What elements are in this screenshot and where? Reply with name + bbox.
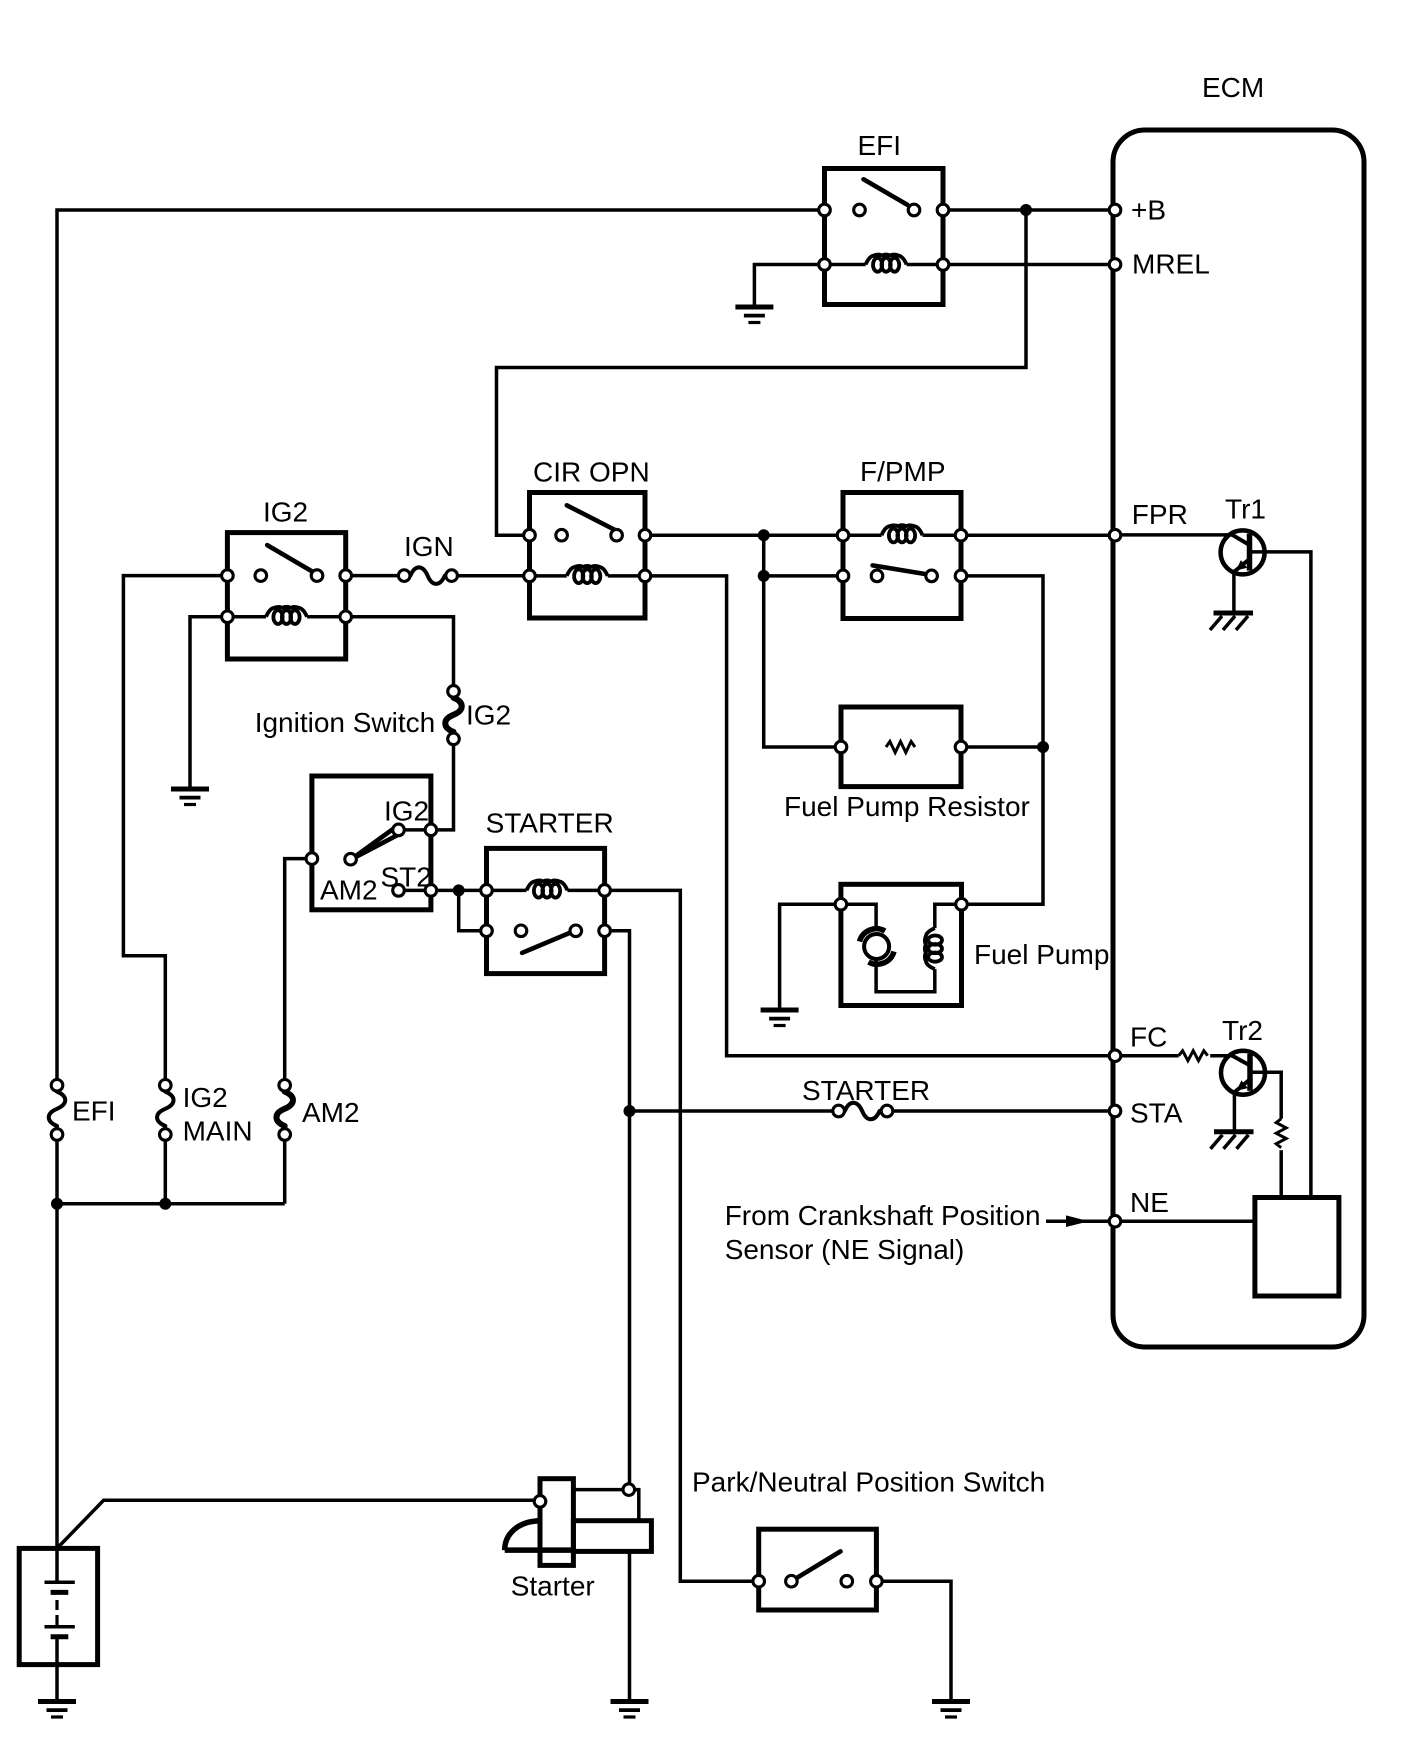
svg-text:FC: FC (1130, 1022, 1167, 1053)
relay CIR OPN coil (530, 566, 646, 583)
relay F/PMP switch lever (873, 565, 928, 574)
pin STARTER relay switch left (481, 925, 493, 937)
NE block inside ECM (1255, 1198, 1339, 1297)
pin IG2 relay switch right (340, 570, 352, 582)
ignition switch ST2 contact to pin wire (399, 889, 431, 893)
wire junction down to fuel pump resistor input (764, 535, 841, 747)
Tr2 chassis ground (1211, 1132, 1254, 1149)
FC input resistor (1179, 1051, 1208, 1061)
wire battery to EFI relay switch via left rail (57, 210, 825, 1085)
pin EFI fuse bottom (51, 1129, 63, 1141)
battery box (19, 1548, 97, 1664)
pin STARTER relay coil right (599, 885, 611, 897)
pin IG2 MAIN fuse top (160, 1080, 172, 1092)
pin CIR OPN switch right (639, 529, 651, 541)
svg-text:IG2: IG2 (183, 1082, 228, 1113)
contact EFI switch moving (908, 204, 920, 216)
pin EFI relay coil right (937, 259, 949, 271)
svg-text:Tr1: Tr1 (1225, 494, 1266, 525)
Tr1 collector wire to NE block (1250, 552, 1311, 1198)
Tr2 collector resistor vertical (1276, 1119, 1286, 1148)
pin IG2 relay coil left (222, 611, 234, 623)
battery plate long 2 (45, 1625, 75, 1629)
svg-text:STARTER: STARTER (802, 1075, 930, 1106)
svg-text:+B: +B (1131, 195, 1166, 226)
contact park/neutral switch fixed (786, 1575, 798, 1587)
svg-text:Tr2: Tr2 (1222, 1015, 1263, 1046)
svg-text:Park/Neutral Position Switch: Park/Neutral Position Switch (692, 1467, 1045, 1498)
pin F/PMP switch right (955, 570, 967, 582)
wire ignition switch AM2 terminal to AM2 fuse (285, 859, 312, 1086)
svg-text:IG2: IG2 (384, 796, 429, 827)
relay STARTER box (487, 848, 605, 973)
wire STA junction to STARTER fuse (630, 1109, 839, 1113)
junction +B node (1020, 204, 1032, 216)
pin IG2 MAIN fuse bottom (160, 1129, 172, 1141)
relay CIR OPN box (530, 493, 646, 619)
pin park/neutral switch left (753, 1575, 765, 1587)
pin EFI fuse top (51, 1080, 63, 1092)
transistor Tr1 (1221, 530, 1265, 574)
junction ST2 node (453, 884, 465, 896)
wire fuse bus rail (57, 1202, 285, 1206)
svg-text:AM2: AM2 (320, 875, 378, 906)
pin starter solenoid control terminal (623, 1484, 635, 1496)
ground at starter (611, 1702, 649, 1718)
fuel pump resistor zigzag R (886, 742, 915, 753)
fuel pump motor rotation arrows (860, 929, 886, 942)
wire ignition switch ST2 to STARTER relay coil (431, 889, 487, 893)
pin ECM MREL (1109, 259, 1121, 271)
wire IG2 relay switch output to IGN fuse (346, 574, 405, 578)
junction bus IG2 MAIN (159, 1198, 171, 1210)
pin EFI relay switch right (937, 204, 949, 216)
Tr1 emitter wire (1232, 571, 1236, 612)
ground at EFI relay coil (735, 307, 773, 323)
pin EFI relay coil left (819, 259, 831, 271)
contact park/neutral switch moving (841, 1575, 853, 1587)
ECM (1113, 130, 1364, 1347)
contact STARTER switch moving (570, 925, 582, 937)
wire IG2 fuse to ignition switch IG2 terminal (431, 739, 454, 830)
relay IG2 box (227, 533, 345, 659)
pin IGN fuse left (398, 570, 410, 582)
contact STARTER switch fixed (515, 925, 527, 937)
wire IG2 relay coil to ground (190, 617, 227, 787)
Tr1 chassis ground (1210, 613, 1253, 630)
svg-text:From Crankshaft Position: From Crankshaft Position (725, 1200, 1041, 1231)
pin ignition switch ST2 (425, 885, 437, 897)
svg-text:IG2: IG2 (263, 497, 308, 528)
pin ECM STA (1109, 1105, 1121, 1117)
relay F/PMP coil (843, 525, 961, 542)
starter motor body (573, 1521, 651, 1552)
pin fuel pump resistor right (955, 741, 967, 753)
wire fuel pump to ground (780, 904, 841, 1008)
starter solenoid (540, 1479, 573, 1566)
svg-text:IGN: IGN (404, 531, 454, 562)
pin starter solenoid battery terminal (534, 1496, 546, 1508)
svg-text:EFI: EFI (72, 1096, 116, 1127)
battery plate long 1 (45, 1580, 75, 1584)
wire ECM FPR pin to Tr1 base (1115, 533, 1232, 537)
pin ECM +B (1109, 204, 1121, 216)
junction F/PMP coil feed (758, 529, 770, 541)
transistor Tr2 (1221, 1051, 1265, 1095)
svg-text:F/PMP: F/PMP (860, 456, 946, 487)
fuel pump resistor box (841, 707, 961, 787)
pin fuel pump left (835, 899, 847, 911)
junction bus EFI (51, 1198, 63, 1210)
wire CIR OPN relay coil to ECM FC (645, 576, 1115, 1056)
relay STARTER switch lever (522, 932, 573, 953)
svg-text:MAIN: MAIN (183, 1116, 253, 1147)
ground at battery (38, 1702, 76, 1718)
pin IG2 fuse bottom (448, 733, 460, 745)
svg-text:MREL: MREL (1132, 249, 1210, 280)
fuse IG2 MAIN wave (vertical) (157, 1092, 174, 1126)
wire EFI relay coil to ECM MREL (943, 263, 1115, 267)
wire IG2 relay coil to IG2 fuse (346, 617, 454, 692)
wire +B junction down to CIR OPN relay switch input (497, 210, 1027, 535)
pin EFI relay switch left (819, 204, 831, 216)
wire starter motor to ground (628, 1551, 632, 1701)
svg-text:EFI: EFI (858, 130, 902, 161)
pin CIR OPN coil right (639, 570, 651, 582)
wire ECM FC pin to resistor (1115, 1054, 1179, 1058)
wire F/PMP relay switch output down to fuel pump (961, 576, 1043, 904)
battery dashed cell link (55, 1600, 58, 1627)
wire STARTER fuse to ECM STA (887, 1109, 1115, 1113)
pin F/PMP switch left (837, 570, 849, 582)
svg-text:CIR OPN: CIR OPN (533, 457, 650, 488)
wire AM2 fuse to bus (283, 1135, 287, 1204)
fuse IG2 wave (vertical) (445, 698, 462, 732)
wire junction to F/PMP relay switch input (764, 574, 843, 578)
wire EFI relay switch output to ECM +B (943, 208, 1115, 212)
pin park/neutral switch right (871, 1575, 883, 1587)
ground at fuel pump (761, 1010, 799, 1026)
contact IG2 switch fixed (255, 570, 267, 582)
relay IG2 coil (227, 607, 345, 624)
relay EFI switch lever (864, 179, 908, 205)
ignition switch lever double line (351, 827, 401, 860)
wire ST2 junction down to STARTER relay switch (459, 890, 487, 930)
Tr2 emitter wire (1233, 1091, 1237, 1131)
svg-text:STA: STA (1130, 1098, 1183, 1129)
pin STARTER relay switch right (599, 925, 611, 937)
relay STARTER coil (487, 880, 605, 897)
contact F/PMP switch fixed (871, 570, 883, 582)
contact CIR OPN switch fixed (556, 529, 568, 541)
pin STARTER fuse left (833, 1105, 845, 1117)
svg-text:NE: NE (1130, 1187, 1169, 1218)
wire STARTER relay switch output down to starter solenoid (605, 931, 630, 1490)
battery top wire (55, 1548, 59, 1582)
pin IG2 fuse top (448, 686, 460, 698)
contact ignition switch pivot (345, 853, 357, 865)
pin ECM FC (1109, 1050, 1121, 1062)
wire NE signal stub into ECM NE (1046, 1219, 1115, 1223)
fuel pump internal wiring (841, 904, 962, 992)
wire resistor to NE block (1279, 1150, 1283, 1197)
pin fuel pump resistor left (835, 741, 847, 753)
wire EFI relay coil to ground (754, 265, 824, 306)
wire CIR OPN switch output to F/PMP relay coil (645, 533, 843, 537)
pin IG2 relay switch left (222, 570, 234, 582)
pin CIR OPN coil left (524, 570, 536, 582)
contact EFI switch fixed (854, 204, 866, 216)
relay IG2 switch lever (267, 545, 316, 574)
pin AM2 fuse top (279, 1080, 291, 1092)
pin STARTER relay coil left (481, 885, 493, 897)
wire F/PMP relay coil to ECM FPR (961, 533, 1115, 537)
svg-text:ECM: ECM (1202, 72, 1264, 103)
park/neutral switch lever (791, 1551, 840, 1581)
NE signal arrowhead (1066, 1215, 1089, 1227)
wire battery positive to starter solenoid (57, 1500, 537, 1548)
starter nose bell (505, 1521, 574, 1550)
contact ignition switch ST2 (393, 885, 405, 897)
junction F/PMP switch feed (758, 570, 770, 582)
junction STA node (624, 1105, 636, 1117)
svg-text:Fuel Pump Resistor: Fuel Pump Resistor (784, 791, 1030, 822)
svg-text:Ignition Switch: Ignition Switch (255, 707, 436, 738)
pin IGN fuse right (446, 570, 458, 582)
relay F/PMP box (843, 493, 961, 619)
pin F/PMP coil right (955, 529, 967, 541)
svg-text:FPR: FPR (1132, 499, 1188, 530)
pin IG2 relay coil right (340, 611, 352, 623)
ignition switch IG2 contact to pin wire (399, 828, 431, 832)
wire ECM NE pin to NE block (1115, 1219, 1255, 1223)
fuse IGN wave (410, 567, 444, 584)
ground at IG2 relay coil (171, 789, 209, 805)
Tr2 collector wire into pull-up resistor (1250, 1072, 1281, 1119)
pin STARTER fuse right (881, 1105, 893, 1117)
svg-text:STARTER: STARTER (486, 808, 614, 839)
ignition switch box (312, 776, 431, 910)
battery plate short 1 (51, 1590, 69, 1595)
pin ignition switch AM2 (306, 853, 318, 865)
wire STARTER relay coil to park/neutral switch (605, 890, 759, 1581)
wire park/neutral switch to ground (876, 1581, 951, 1701)
pin CIR OPN switch left (524, 529, 536, 541)
relay EFI coil (825, 255, 944, 272)
fuel pump internal coil (925, 928, 942, 969)
contact ignition switch IG2 (393, 824, 405, 836)
svg-text:Fuel Pump: Fuel Pump (974, 939, 1109, 970)
fuel pump box (841, 884, 962, 1005)
wire IGN fuse to CIR OPN relay coil (452, 574, 530, 578)
fuse AM2 wave (vertical) (276, 1092, 293, 1126)
svg-text:Starter: Starter (511, 1570, 595, 1601)
ground at park/neutral switch (932, 1702, 970, 1718)
pin F/PMP coil left (837, 529, 849, 541)
park/neutral position switch box (759, 1529, 877, 1610)
wire EFI fuse to battery (55, 1135, 59, 1549)
wire IG2 MAIN fuse to bus (164, 1135, 168, 1204)
relay EFI box (825, 169, 944, 305)
contact F/PMP switch moving (926, 570, 938, 582)
pin ignition switch IG2 (425, 824, 437, 836)
contact CIR OPN switch moving (611, 529, 623, 541)
junction fuel pump resistor output (1037, 741, 1049, 753)
contact IG2 switch moving (311, 570, 323, 582)
fuse STARTER wave (845, 1103, 880, 1120)
battery plate short 2 (51, 1634, 69, 1639)
starter top terminal wire (573, 1490, 638, 1521)
fuel pump motor M circle (864, 934, 889, 959)
pin AM2 fuse bottom (279, 1129, 291, 1141)
svg-text:IG2: IG2 (466, 700, 511, 731)
fuse EFI wave (vertical) (49, 1092, 66, 1126)
pin fuel pump right (956, 899, 968, 911)
wire FC resistor to Tr2 base (1210, 1054, 1232, 1058)
wire IG2 relay switch input from IG2 MAIN fuse (123, 576, 227, 1086)
relay CIR OPN switch lever (567, 505, 616, 530)
svg-text:AM2: AM2 (302, 1097, 360, 1128)
svg-text:ST2: ST2 (381, 862, 432, 893)
pin ECM FPR (1109, 529, 1121, 541)
wire fuel pump resistor output to junction (961, 745, 1043, 749)
pin ECM NE (1109, 1215, 1121, 1227)
battery bottom wire to ground (55, 1637, 59, 1701)
svg-text:Sensor (NE Signal): Sensor (NE Signal) (725, 1234, 965, 1265)
